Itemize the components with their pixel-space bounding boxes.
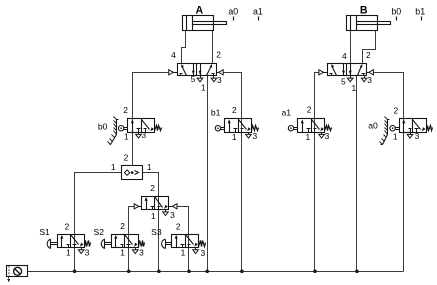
- svg-text:1: 1: [120, 247, 125, 257]
- svg-text:1: 1: [201, 83, 206, 93]
- svg-text:4: 4: [342, 51, 347, 61]
- shuttle valve (OR): [122, 166, 143, 180]
- svg-text:1: 1: [351, 83, 356, 93]
- junction on bus: [355, 270, 359, 274]
- svg-text:S1: S1: [39, 227, 50, 237]
- svg-text:1: 1: [66, 247, 71, 257]
- cylinder B: [347, 16, 391, 31]
- 5/2 valve A (U1): [169, 64, 224, 82]
- svg-text:4: 4: [171, 50, 176, 60]
- svg-text:2: 2: [124, 153, 129, 163]
- svg-text:2: 2: [123, 105, 128, 115]
- svg-text:A: A: [195, 5, 203, 17]
- label A: [195, 5, 203, 17]
- valve A port labels: [171, 50, 222, 93]
- svg-text:2: 2: [150, 183, 155, 193]
- svg-text:3: 3: [200, 248, 205, 258]
- wire: S3 line (memory valve right pilot down through S3 to bus): [178, 207, 189, 272]
- svg-text:2: 2: [216, 50, 221, 60]
- svg-text:5: 5: [341, 76, 346, 86]
- svg-text:2: 2: [393, 105, 398, 115]
- svg-text:1: 1: [151, 211, 156, 221]
- valve S3 labels: [151, 221, 205, 258]
- label B: [360, 5, 368, 17]
- wire: S1 line (shuttle left input down through S1 to bus): [75, 173, 122, 272]
- junction on bus: [205, 270, 209, 274]
- svg-text:2: 2: [120, 221, 125, 231]
- valve a1 labels: [282, 105, 330, 143]
- wire: S2 line (memory valve left pilot down through S2 to bus): [129, 207, 135, 272]
- junction on bus: [313, 270, 317, 274]
- svg-text:B: B: [360, 5, 368, 17]
- 3/2 push-button valve S1: [47, 235, 90, 254]
- wire: valve A port 1 down to bus: [207, 76, 209, 272]
- label a1 with mark: [253, 6, 263, 20]
- svg-text:b1: b1: [211, 108, 221, 118]
- svg-text:1: 1: [147, 162, 152, 172]
- wire: valve B right pilot right and down through valve a0 to bus end: [374, 73, 404, 272]
- wire: shuttle output up through valve b0 to valve A left pilot: [133, 73, 169, 166]
- svg-text:3: 3: [85, 248, 90, 258]
- svg-text:2: 2: [366, 50, 371, 60]
- svg-text:2: 2: [65, 221, 70, 231]
- junction on bus: [73, 270, 77, 274]
- svg-text:3: 3: [141, 130, 146, 140]
- memory valve right pilot: [169, 204, 178, 209]
- shuttle valve labels: [111, 153, 152, 172]
- 5/2 valve B (U2): [319, 64, 374, 82]
- label b1 with mark: [415, 6, 425, 20]
- svg-text:S3: S3: [151, 227, 162, 237]
- cylinder A: [183, 16, 227, 31]
- wire: cylinder B left port to valve B port 4: [350, 31, 352, 64]
- valve b1 labels: [211, 105, 258, 142]
- compressed air supply: [7, 266, 28, 283]
- svg-text:2: 2: [176, 221, 181, 231]
- svg-text:2: 2: [307, 105, 312, 115]
- junction on bus: [187, 270, 191, 274]
- svg-text:S2: S2: [94, 227, 105, 237]
- junction on bus: [157, 270, 161, 274]
- svg-text:a1: a1: [282, 108, 292, 118]
- svg-text:b1: b1: [415, 6, 425, 16]
- svg-text:1: 1: [393, 132, 398, 142]
- svg-text:2: 2: [232, 105, 237, 115]
- svg-text:a0: a0: [368, 121, 378, 131]
- junction on bus: [127, 270, 131, 274]
- wire: valve B left pilot from valve a1 line: [315, 73, 321, 272]
- svg-text:1: 1: [305, 132, 310, 142]
- 3/2 roller valve b1: [215, 119, 258, 139]
- valve S2 labels: [94, 221, 145, 258]
- svg-text:3: 3: [139, 248, 144, 258]
- svg-text:1: 1: [181, 248, 186, 258]
- svg-text:3: 3: [367, 75, 372, 85]
- wire: cylinder A left port to valve A port 4: [182, 31, 186, 64]
- 3/2 push-button valve S3: [162, 235, 206, 254]
- wire: valve A right pilot right and down through valve b1 to bus: [224, 73, 242, 272]
- valve b0 labels: [98, 105, 147, 142]
- wire: valve B port 1 down to bus: [356, 76, 358, 272]
- svg-text:b0: b0: [391, 6, 401, 16]
- svg-text:a1: a1: [253, 6, 263, 16]
- 3/2 push-button valve S2: [101, 235, 144, 254]
- svg-text:1: 1: [111, 162, 116, 172]
- svg-text:3: 3: [252, 131, 257, 141]
- svg-text:3: 3: [170, 210, 175, 220]
- wire: cylinder B right port to valve B port 2: [363, 31, 376, 64]
- wire: supply bus: [28, 271, 404, 273]
- valve a0 labels: [368, 105, 419, 141]
- 3/2 roller valve b0 (actuated): [108, 117, 162, 145]
- 3/2 roller valve a0 (actuated): [380, 117, 433, 145]
- wire: memory valve line (shuttle right input down through memory valve to bus): [143, 173, 159, 272]
- 3/2 valve double piloted (memory): [142, 197, 169, 216]
- wire: cylinder A right port to valve A port 2: [212, 31, 214, 64]
- valve B port labels: [341, 50, 372, 93]
- label a0 with mark: [228, 6, 238, 20]
- junction on bus: [240, 270, 244, 274]
- memory valve labels: [150, 183, 175, 221]
- svg-text:5: 5: [191, 74, 196, 84]
- 3/2 roller valve a1: [288, 119, 331, 139]
- svg-text:3: 3: [325, 131, 330, 141]
- svg-text:a0: a0: [228, 6, 238, 16]
- svg-text:3: 3: [217, 75, 222, 85]
- svg-text:b0: b0: [98, 122, 108, 132]
- svg-text:3: 3: [415, 131, 420, 141]
- valve S1 labels: [39, 221, 89, 257]
- svg-text:1: 1: [124, 132, 129, 142]
- memory valve left pilot: [134, 204, 141, 209]
- label b0 with mark: [391, 6, 401, 20]
- svg-text:1: 1: [232, 132, 237, 142]
